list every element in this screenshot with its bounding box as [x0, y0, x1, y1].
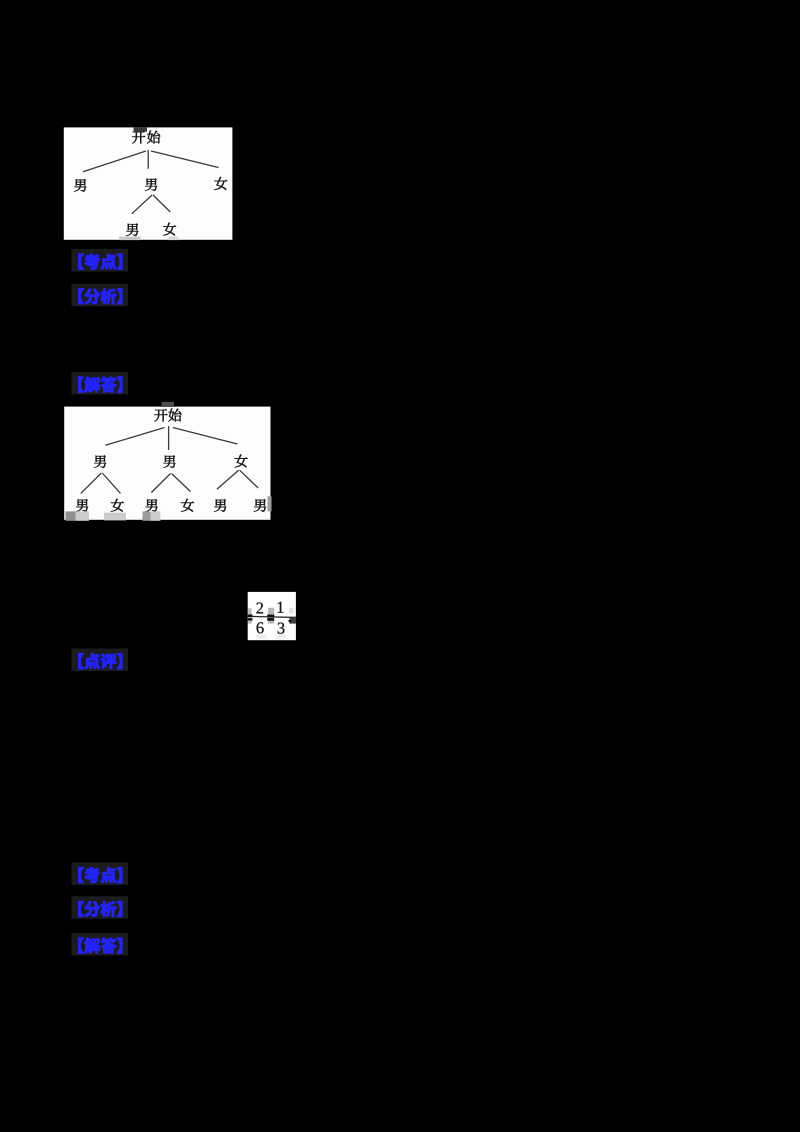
tree2 level2 node 男 (1) [76, 499, 88, 511]
bold equals middle [267, 615, 274, 621]
tree2 level2 node 男 (5) [214, 499, 226, 511]
gray strip left (equals artifact) [248, 608, 251, 623]
tree2 level2 node 女 (2) [111, 499, 124, 512]
tree2 edge root to left child [105, 428, 164, 446]
hyperlink field label 【解答】 (answer 1) [72, 372, 129, 395]
figure box 1: white tree diagram (answer 1) [64, 127, 233, 239]
tree2 right V edges [217, 470, 258, 489]
tree2 level1 left node 男 [94, 455, 106, 467]
hyperlink field label 【考点】 (answer 2) [72, 863, 129, 886]
hyperlink field label 【分析】 (answer 2) [72, 896, 129, 919]
fraction bar [248, 615, 290, 618]
tree2 level1 middle node 男 [163, 455, 175, 467]
denominator 3 [278, 623, 285, 634]
tree2 left V edges [81, 473, 121, 493]
tree2 level1 right node 女 [235, 455, 248, 468]
light smudges under fraction [256, 635, 285, 639]
hyperlink field label 【解答】 (answer 2) [72, 933, 129, 956]
gray pads under tree2 bottom row [66, 511, 161, 520]
hyperlink field label 【点评】 (answer 1) [72, 649, 129, 672]
bold equals left [248, 615, 253, 621]
gray pad under tree1 level2 女 [169, 237, 179, 241]
tree1 level2 node 女 [163, 223, 176, 236]
tree1 level1 right node 女 [214, 177, 227, 190]
gray cursor bar right of last 男 [268, 496, 272, 511]
numerator 2 [256, 602, 263, 613]
tree2 level2 node 女 (4) [181, 499, 194, 512]
tree2 root label 开始 [154, 409, 181, 422]
tree1 level2 node 男 [126, 224, 138, 236]
dark block right of formula [289, 617, 296, 624]
tree1 edge middle to 男 (level2) [132, 195, 152, 214]
tree1 level1 middle node 男 [145, 178, 157, 190]
hyperlink field label 【考点】 (answer 1) [72, 249, 129, 272]
tree1 root label 开始 [132, 131, 160, 144]
dark smudge above 开始 (tree 1) [134, 127, 148, 132]
tree1 edge root to left child [83, 151, 146, 172]
denominator 6 [257, 622, 264, 633]
gray strip middle (equals artifact) [268, 608, 274, 624]
hyperlink field label 【分析】 (answer 1) [72, 284, 129, 307]
numerator 1 [278, 602, 284, 613]
figure box 2: white tree diagram (answer 1 solution) [64, 407, 270, 520]
dark smudge above 开始 (tree 2) [162, 402, 175, 407]
gray strip right [289, 608, 294, 614]
tree1 level1 left node 男 [74, 179, 86, 191]
tree2 edge root to middle child [168, 426, 170, 450]
tree2 edge root to right child [173, 428, 238, 445]
tree2 level2 node 男 (6) [254, 499, 266, 511]
tree1 edge root to right child [151, 151, 219, 168]
tree2 level2 node 男 (3) [145, 499, 157, 511]
gray pad under tree1 level2 男 [119, 237, 140, 241]
tree1 edge middle to 女 (level2) [153, 195, 170, 212]
formula box: ＝2/6＝1/3 [248, 592, 296, 640]
tree1 edge root to middle child [147, 150, 149, 169]
tree2 middle V edges [151, 474, 190, 493]
